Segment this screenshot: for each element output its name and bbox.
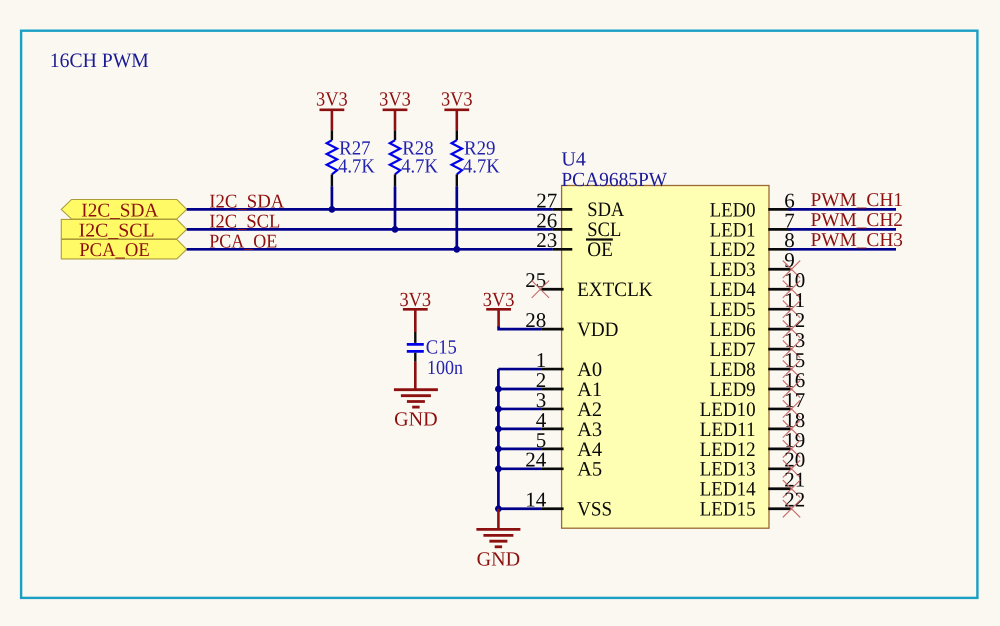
junction A5 <box>495 465 502 472</box>
svg-text:I2C_SCL: I2C_SCL <box>209 211 280 232</box>
pin 16 LED9 <box>710 368 806 401</box>
net label PCA_OE <box>209 231 277 252</box>
junction A1 <box>495 386 502 393</box>
ground (C15) <box>394 362 438 431</box>
power 3V3 (VDD) <box>483 289 515 328</box>
svg-text:PWM_CH3: PWM_CH3 <box>811 230 904 251</box>
svg-text:100n: 100n <box>427 357 463 379</box>
pin 15 LED8 <box>710 348 806 381</box>
svg-text:VSS: VSS <box>577 499 612 521</box>
pin 2 A1 <box>498 368 602 401</box>
junction A2 <box>495 406 502 413</box>
svg-text:I2C_SCL: I2C_SCL <box>79 220 155 241</box>
pin 24 A5 <box>498 448 602 481</box>
pin 28 VDD <box>525 308 618 341</box>
svg-text:A0: A0 <box>577 359 602 381</box>
pin 21 LED14 <box>700 468 806 501</box>
svg-text:C15: C15 <box>426 337 457 359</box>
svg-text:PCA9685PW: PCA9685PW <box>561 169 667 191</box>
svg-text:14: 14 <box>525 488 547 512</box>
wire 3V3 to VDD <box>499 327 542 330</box>
svg-text:LED2: LED2 <box>710 239 756 261</box>
svg-text:25: 25 <box>525 268 546 292</box>
IC U4 PCA9685PW body <box>562 186 769 529</box>
junction A4 <box>495 445 502 452</box>
svg-text:LED7: LED7 <box>710 339 756 361</box>
svg-text:LED8: LED8 <box>710 359 756 381</box>
svg-text:4.7K: 4.7K <box>401 156 438 178</box>
svg-text:16CH PWM: 16CH PWM <box>50 50 149 72</box>
svg-text:U4: U4 <box>561 149 585 171</box>
pin 18 LED11 <box>700 408 806 441</box>
pin 1 A0 <box>498 348 602 381</box>
pin 6 LED0 <box>710 188 795 221</box>
pin 8 LED2 <box>710 228 795 261</box>
svg-text:3V3: 3V3 <box>441 89 473 111</box>
wire address bus vertical <box>497 369 500 510</box>
svg-text:LED6: LED6 <box>710 319 756 341</box>
net label I2C_SDA <box>209 191 284 212</box>
svg-text:4.7K: 4.7K <box>338 156 375 178</box>
svg-text:LED5: LED5 <box>710 299 756 321</box>
wire net PWM_CH1 <box>789 208 897 211</box>
svg-text:24: 24 <box>525 448 547 472</box>
wire R29 to bus <box>455 186 458 249</box>
svg-text:LED14: LED14 <box>700 479 756 501</box>
wire net I2C_SCL <box>187 228 553 231</box>
pin 27 SDA <box>536 188 624 221</box>
wire net PCA_OE <box>187 248 553 251</box>
net label PWM_CH2 <box>811 210 904 231</box>
wire R27 to bus <box>331 186 334 209</box>
svg-text:SCL: SCL <box>587 219 621 241</box>
pin 5 A4 <box>498 428 602 461</box>
svg-text:PWM_CH2: PWM_CH2 <box>811 210 904 231</box>
junction R27 <box>329 206 336 213</box>
wire net PWM_CH3 <box>789 248 897 251</box>
resistor R29 4.7K <box>452 130 501 186</box>
pin 14 VSS <box>498 488 612 521</box>
net label PWM_CH1 <box>811 190 904 211</box>
svg-text:PCA_OE: PCA_OE <box>209 231 277 252</box>
svg-text:A4: A4 <box>577 439 602 461</box>
value PCA9685PW <box>561 169 667 191</box>
svg-text:SDA: SDA <box>587 199 624 221</box>
svg-text:LED0: LED0 <box>710 199 756 221</box>
svg-text:GND: GND <box>394 408 438 430</box>
svg-text:3V3: 3V3 <box>483 289 515 311</box>
power 3V3 (C15) <box>399 289 431 332</box>
net label PWM_CH3 <box>811 230 904 251</box>
svg-text:3V3: 3V3 <box>399 289 431 311</box>
junction VSS <box>495 505 502 512</box>
svg-text:A1: A1 <box>577 379 602 401</box>
pin 26 SCL <box>536 208 621 241</box>
svg-text:LED1: LED1 <box>710 219 756 241</box>
power 3V3 (R27) <box>316 89 348 131</box>
pin 17 LED10 <box>700 388 806 421</box>
wire net I2C_SDA <box>187 208 553 211</box>
svg-text:A3: A3 <box>577 419 602 441</box>
pin 25 EXTCLK (no connect) <box>525 268 652 301</box>
svg-text:LED13: LED13 <box>700 459 756 481</box>
net label I2C_SCL <box>209 211 280 232</box>
svg-text:GND: GND <box>477 548 521 570</box>
svg-text:LED4: LED4 <box>710 279 756 301</box>
designator U4 <box>561 149 585 171</box>
svg-text:EXTCLK: EXTCLK <box>577 279 653 301</box>
resistor R27 4.7K <box>327 130 376 186</box>
pin 10 LED4 <box>710 268 806 301</box>
svg-text:4.7K: 4.7K <box>463 156 500 178</box>
svg-text:PWM_CH1: PWM_CH1 <box>811 190 904 211</box>
ground (VSS bus) <box>476 509 520 571</box>
svg-text:LED9: LED9 <box>710 379 756 401</box>
wire net PWM_CH2 <box>789 228 897 231</box>
svg-text:A5: A5 <box>577 459 602 481</box>
svg-text:I2C_SDA: I2C_SDA <box>209 191 284 212</box>
svg-text:LED11: LED11 <box>700 419 756 441</box>
pin 11 LED5 <box>710 288 806 321</box>
power 3V3 (R28) <box>379 89 411 131</box>
pin 23 OE <box>536 228 613 261</box>
pin 20 LED13 <box>700 448 806 481</box>
junction R28 <box>392 226 399 233</box>
svg-text:PCA_OE: PCA_OE <box>79 240 150 261</box>
resistor R28 4.7K <box>390 130 439 186</box>
pin 13 LED7 <box>710 328 806 361</box>
svg-text:LED10: LED10 <box>700 399 756 421</box>
svg-text:LED12: LED12 <box>700 439 756 461</box>
pin 3 A2 <box>498 388 602 421</box>
power 3V3 (R29) <box>441 89 473 131</box>
svg-text:3V3: 3V3 <box>316 89 348 111</box>
pin 4 A3 <box>498 408 602 441</box>
svg-text:22: 22 <box>784 488 805 512</box>
pin 22 LED15 <box>700 488 806 521</box>
svg-text:28: 28 <box>525 308 546 332</box>
pin 19 LED12 <box>700 428 806 461</box>
svg-text:OE: OE <box>587 239 613 261</box>
svg-text:LED3: LED3 <box>710 259 756 281</box>
pin 7 LED1 <box>710 208 795 241</box>
wire R28 to bus <box>394 186 397 229</box>
svg-text:I2C_SDA: I2C_SDA <box>81 200 158 221</box>
port I2C_SDA <box>61 200 186 222</box>
pin 9 LED3 <box>710 248 801 281</box>
capacitor C15 100n <box>407 332 463 379</box>
pin 12 LED6 <box>710 308 806 341</box>
svg-text:A2: A2 <box>577 399 602 421</box>
port PCA_OE <box>61 239 186 261</box>
junction A3 <box>495 426 502 433</box>
port I2C_SCL <box>61 219 186 241</box>
svg-text:3V3: 3V3 <box>379 89 411 111</box>
title 16CH PWM <box>50 50 149 72</box>
junction R29 <box>453 246 460 253</box>
svg-text:VDD: VDD <box>577 319 618 341</box>
svg-text:23: 23 <box>536 228 557 252</box>
svg-text:LED15: LED15 <box>700 499 756 521</box>
